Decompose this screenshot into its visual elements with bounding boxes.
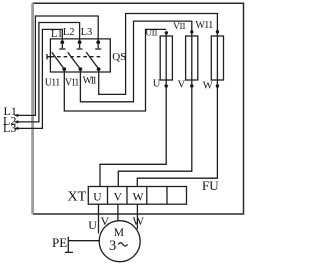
svg-text:QS: QS <box>112 51 126 63</box>
QS pole 2 jaw <box>77 44 83 49</box>
wire W11 QS to fuse <box>99 14 218 95</box>
svg-text:V: V <box>178 79 186 90</box>
fuse FU2 <box>186 36 198 80</box>
svg-text:W: W <box>133 214 145 228</box>
fuse FU1 stubs <box>165 33 167 87</box>
fuse FU3 <box>211 36 223 80</box>
svg-text:3: 3 <box>109 238 116 254</box>
QS blade 1 <box>52 52 65 69</box>
QS handle <box>47 54 50 59</box>
node L1 arrow <box>14 114 18 117</box>
board frame left edge <box>31 3 34 214</box>
QS pole 3 jaw <box>95 44 101 49</box>
svg-text:U11: U11 <box>45 77 61 88</box>
svg-text:L1: L1 <box>51 29 63 40</box>
QS linkage dashed <box>50 56 100 58</box>
QS top contact 2 <box>78 40 82 44</box>
QS bottom contact 2 <box>79 67 83 71</box>
fuse top node V11 <box>190 30 193 33</box>
fuse FU1 <box>160 36 172 80</box>
QS blade 3 <box>86 52 98 69</box>
svg-text:L3: L3 <box>3 121 16 135</box>
terminal block XT <box>88 187 186 205</box>
node L2 arrow <box>14 120 18 123</box>
svg-text:V: V <box>114 192 123 204</box>
svg-text:W11: W11 <box>83 75 98 86</box>
svg-text:V: V <box>101 214 110 228</box>
fuse top node U11 <box>165 31 168 34</box>
svg-text:V11: V11 <box>65 77 80 88</box>
wire V fuse to XT <box>118 86 192 187</box>
svg-text:U: U <box>93 192 102 204</box>
switch QS box <box>50 39 110 72</box>
PE ground stake <box>65 237 73 253</box>
svg-text:L2: L2 <box>63 27 75 38</box>
svg-text:W11: W11 <box>195 20 213 31</box>
svg-text:U11: U11 <box>145 29 158 39</box>
node L3 arrow <box>14 127 18 130</box>
wire XT to motor V <box>117 204 119 221</box>
QS pole 1 jaw <box>59 44 65 49</box>
fuse bottom node U <box>165 84 168 87</box>
QS bottom contact 3 <box>97 67 101 71</box>
svg-text:W: W <box>203 80 213 91</box>
wire U fuse to XT <box>100 86 166 187</box>
board frame <box>33 3 244 214</box>
wire XT to motor U <box>98 204 100 233</box>
svg-text:V11: V11 <box>173 22 187 32</box>
fuse top node W11 <box>216 30 219 33</box>
wire L1 input <box>16 16 98 115</box>
fuse bottom node V <box>190 84 193 87</box>
fuse FU2 stubs <box>191 32 193 86</box>
QS top contact 1 <box>60 40 64 44</box>
svg-text:L3: L3 <box>81 27 93 38</box>
svg-text:FU: FU <box>202 178 219 193</box>
svg-text:W: W <box>133 192 144 204</box>
XT dividers <box>108 187 168 205</box>
svg-text:XT: XT <box>68 190 87 205</box>
wire W fuse to XT <box>137 86 217 187</box>
motor M circle <box>99 221 140 262</box>
wire L2 input <box>16 23 80 122</box>
wire PE to motor <box>68 240 100 242</box>
fuse FU3 stubs <box>216 32 218 86</box>
fuse bottom node W <box>216 84 219 87</box>
QS top contact 3 <box>96 40 100 44</box>
svg-text:PE: PE <box>52 235 67 250</box>
QS blade 2 <box>68 52 81 69</box>
svg-text:U: U <box>153 79 161 90</box>
wire V11 QS to fuse <box>80 21 191 102</box>
wire XT to motor W <box>136 204 138 229</box>
QS bottom contact 1 <box>62 67 66 71</box>
wire U11 QS to fuse <box>64 29 166 111</box>
tilde of 3~ <box>118 243 127 246</box>
wire L3 input <box>16 29 63 128</box>
svg-text:U: U <box>88 218 97 232</box>
